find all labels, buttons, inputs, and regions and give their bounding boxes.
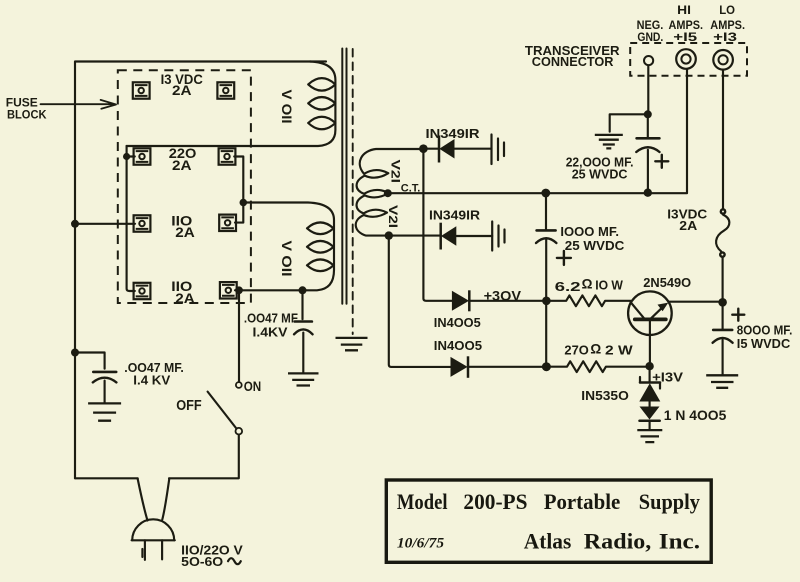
- svg-text:Ω: Ω: [590, 342, 601, 357]
- svg-text:Radio,: Radio,: [584, 528, 652, 553]
- svg-text:2A: 2A: [679, 218, 697, 233]
- svg-text:+I3V: +I3V: [652, 369, 683, 384]
- svg-text:+3OV: +3OV: [484, 288, 521, 303]
- svg-text:2A: 2A: [172, 83, 192, 98]
- svg-text:OFF: OFF: [176, 398, 202, 414]
- svg-text:27O: 27O: [564, 343, 588, 358]
- svg-text:+I3: +I3: [713, 31, 738, 44]
- svg-text:IN4OO5: IN4OO5: [434, 338, 482, 353]
- svg-text:IOOO MF.: IOOO MF.: [560, 224, 619, 239]
- svg-text:Model: Model: [397, 489, 448, 514]
- svg-text:Ω: Ω: [582, 277, 593, 292]
- svg-text:2N549O: 2N549O: [643, 275, 691, 290]
- svg-text:V2I: V2I: [389, 160, 403, 184]
- svg-text:BLOCK: BLOCK: [7, 109, 47, 121]
- svg-text:2 W: 2 W: [605, 343, 633, 358]
- svg-text:V2I: V2I: [386, 205, 400, 228]
- svg-text:HI: HI: [677, 4, 691, 17]
- svg-text:I.4 KV: I.4 KV: [133, 372, 170, 387]
- svg-text:Atlas: Atlas: [524, 528, 572, 553]
- svg-text:Supply: Supply: [639, 489, 701, 514]
- svg-text:200-PS: 200-PS: [463, 489, 527, 514]
- svg-text:Inc.: Inc.: [659, 528, 700, 553]
- svg-text:NEG.: NEG.: [637, 19, 664, 32]
- svg-text:2A: 2A: [175, 225, 195, 240]
- svg-text:1 N 4OO5: 1 N 4OO5: [664, 408, 727, 423]
- svg-text:10/6/75: 10/6/75: [397, 536, 445, 552]
- svg-text:GND.: GND.: [637, 31, 663, 44]
- svg-text:2A: 2A: [172, 158, 192, 173]
- svg-text:V OII: V OII: [279, 241, 294, 277]
- svg-text:AMPS.: AMPS.: [669, 19, 704, 32]
- svg-text:5O-6O: 5O-6O: [181, 554, 223, 569]
- svg-text:IN349IR: IN349IR: [426, 127, 480, 141]
- svg-text:LO: LO: [719, 4, 735, 17]
- svg-text:6.2: 6.2: [555, 279, 581, 294]
- svg-text:CONNECTOR: CONNECTOR: [532, 55, 614, 69]
- svg-text:C.T.: C.T.: [401, 182, 421, 194]
- svg-text:I5 WVDC: I5 WVDC: [737, 336, 791, 351]
- svg-text:FUSE: FUSE: [6, 97, 38, 109]
- svg-text:IN349IR: IN349IR: [429, 209, 480, 223]
- svg-text:2A: 2A: [175, 291, 195, 306]
- svg-text:V OII: V OII: [279, 90, 294, 124]
- svg-text:IO W: IO W: [595, 278, 623, 293]
- svg-text:ON: ON: [244, 378, 262, 394]
- svg-text:IN535O: IN535O: [581, 388, 629, 403]
- svg-text:AMPS.: AMPS.: [710, 19, 745, 32]
- svg-text:+I5: +I5: [673, 31, 698, 44]
- svg-text:I.4KV: I.4KV: [253, 325, 288, 340]
- svg-text:IN4OO5: IN4OO5: [434, 315, 481, 330]
- svg-text:Portable: Portable: [544, 489, 621, 514]
- svg-text:25 WVDC: 25 WVDC: [572, 167, 628, 182]
- svg-text:.OO47 MF: .OO47 MF: [244, 311, 298, 326]
- svg-text:25 WVDC: 25 WVDC: [565, 238, 625, 253]
